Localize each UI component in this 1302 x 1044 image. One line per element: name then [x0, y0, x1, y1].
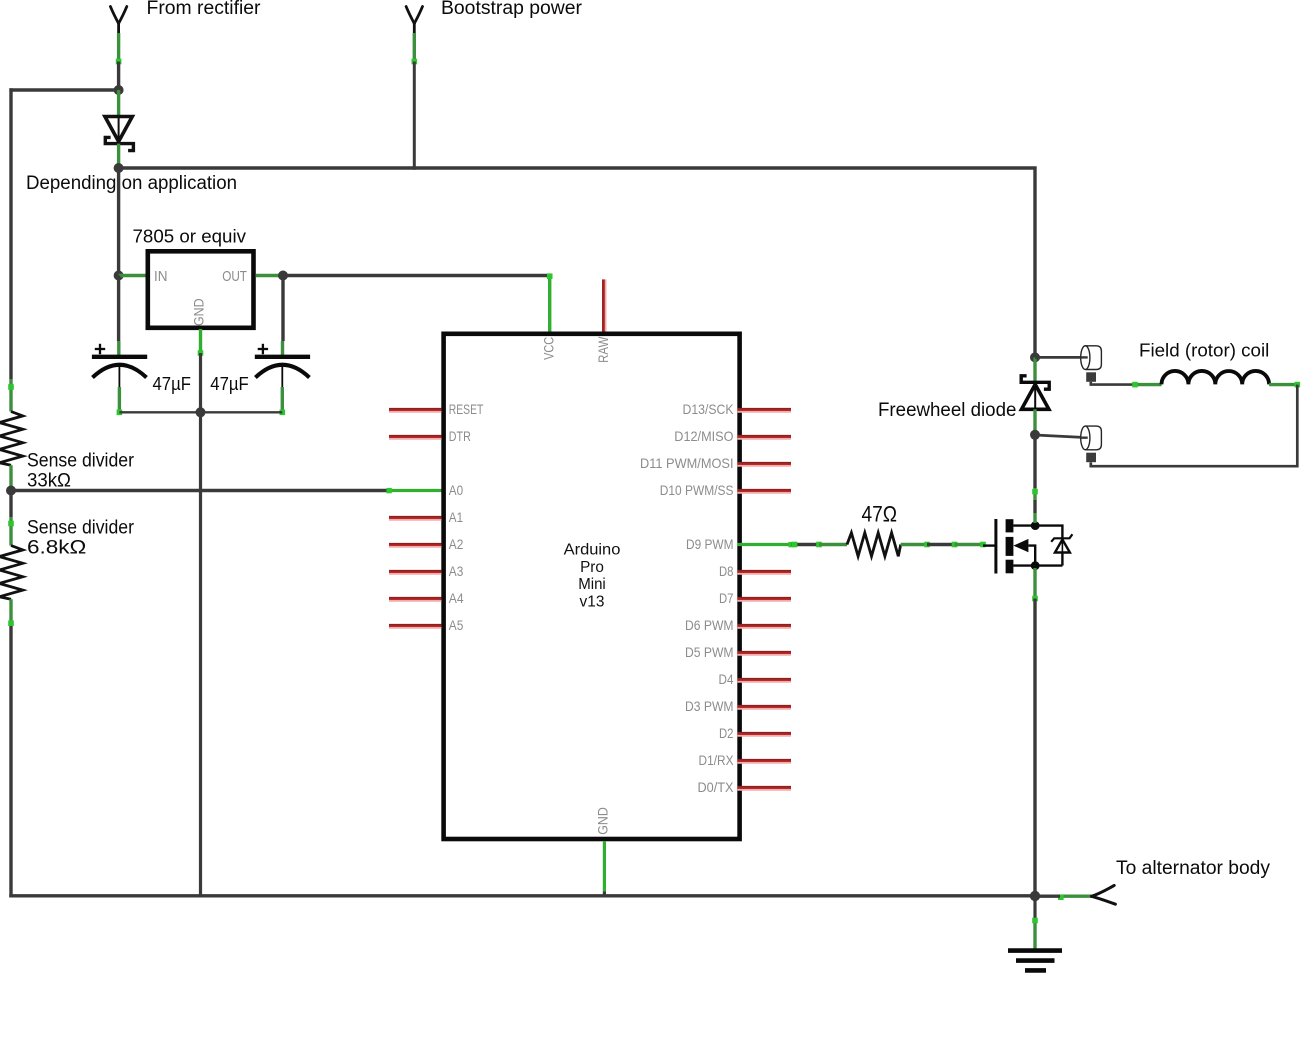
node C junction dot at IN [114, 271, 124, 281]
pin D11 PWM/MOSI red stub [738, 462, 792, 464]
pin DTR red stub [389, 435, 442, 437]
pin D8 red stub [738, 570, 792, 572]
wire coil right green [1269, 383, 1297, 386]
wire node D down to capacitor C2 [281, 276, 284, 342]
node H junction dot ground bus [1030, 891, 1040, 901]
wire ground stem green [1033, 921, 1036, 950]
wire green lead resistor R1 top [9, 379, 12, 412]
pin D4 red stub [738, 678, 792, 680]
svg-text:D6 PWM: D6 PWM [685, 617, 734, 633]
wire coil left green [1135, 383, 1162, 386]
wire green lead resistor R2 bottom [9, 599, 12, 626]
IC U1 Arduino Pro Mini box [444, 334, 740, 839]
fork symbol to alternator body [1092, 885, 1116, 904]
wire D9 pin stub green [738, 543, 792, 546]
wire left rail upper [9, 88, 12, 379]
capacitor C1 47uF [92, 344, 147, 387]
pin D6 PWM red stub [738, 624, 792, 626]
wire green lead resistor R1 bottom [9, 465, 12, 490]
wire coil return loop [1091, 385, 1298, 467]
connector J2 pad square [1086, 453, 1096, 463]
svg-text:Freewheel diode: Freewheel diode [878, 400, 1016, 421]
pin A4 red stub [389, 597, 442, 599]
svg-text:From rectifier: From rectifier [147, 0, 262, 19]
wire C1 bottom lead green [118, 387, 121, 412]
wire bootstrap vertical [413, 62, 416, 170]
svg-text:Bootstrap power: Bootstrap power [441, 0, 583, 19]
wire capacitor ground bus [119, 411, 282, 413]
svg-text:D0/TX: D0/TX [698, 779, 735, 795]
pin RAW red stub [602, 279, 605, 331]
svg-text:47Ω: 47Ω [862, 502, 898, 527]
wire node F to connector J1 [1035, 356, 1088, 359]
svg-text:v13: v13 [580, 593, 605, 610]
wire D9 net to resistor [788, 542, 793, 547]
svg-text:A0: A0 [449, 482, 463, 498]
wire VCC stub green [548, 274, 551, 332]
wire IN stub green [119, 274, 146, 277]
connector J1 pad square [1086, 372, 1096, 382]
connector J2 pin symbol [1081, 426, 1102, 450]
wire source to ground bus [1033, 599, 1036, 897]
svg-text:GND: GND [595, 807, 611, 835]
node A0 junction dot [6, 486, 16, 496]
svg-text:D12/MISO: D12/MISO [674, 428, 733, 444]
source node dot [1031, 561, 1040, 570]
svg-text:Mini: Mini [578, 576, 606, 593]
freewheel diode D2 [1021, 376, 1049, 410]
wire node A to zener green [117, 90, 120, 117]
svg-text:D11 PWM/MOSI: D11 PWM/MOSI [640, 455, 734, 471]
arrow into channel [1013, 539, 1028, 552]
gate lead [983, 544, 995, 546]
channel segments [1006, 519, 1014, 532]
svg-text:RESET: RESET [449, 401, 484, 417]
svg-text:To alternator body: To alternator body [1116, 858, 1271, 879]
connector J1 pin symbol [1081, 346, 1102, 370]
bendpoint marker [116, 59, 122, 65]
wire Arduino GND stub green [603, 841, 606, 892]
wire 7805 GND stub green [199, 329, 202, 353]
svg-text:A2: A2 [449, 536, 464, 552]
source wire [1013, 564, 1062, 566]
capacitor C2 47uF [255, 344, 310, 387]
svg-text:A4: A4 [449, 590, 464, 606]
svg-text:Field (rotor) coil: Field (rotor) coil [1139, 341, 1269, 361]
wire top horizontal bus [119, 168, 1035, 357]
wire resistor to gate [901, 543, 927, 546]
antenna ANT1 From rectifier [110, 7, 126, 34]
wire node A to left rail [9, 88, 118, 91]
wire A0 pin stub green [389, 489, 442, 492]
pin D0/TX red stub [738, 786, 792, 788]
svg-text:GND: GND [191, 298, 207, 326]
wire A0 net horizontal [11, 489, 389, 492]
regulator U2 7805 box [148, 251, 254, 327]
wire freewheel cathode green [1033, 357, 1036, 384]
pin D10 PWM/SS red stub [738, 489, 792, 491]
svg-text:D10 PWM/SS: D10 PWM/SS [660, 482, 734, 498]
pin D3 PWM red stub [738, 705, 792, 707]
drain node dot [1031, 521, 1040, 530]
wire source down green [1033, 568, 1036, 599]
wire node G to connector J2 [1035, 435, 1088, 438]
wire C2 bottom lead green [281, 387, 284, 412]
antenna ANT2 Bootstrap power [406, 7, 422, 34]
wire freewheel top node to drain [1033, 435, 1036, 488]
svg-text:IN: IN [154, 268, 168, 285]
wire between sense dividers [9, 491, 12, 518]
pin D7 red stub [738, 597, 792, 599]
node D junction dot at OUT [278, 271, 288, 281]
pin A1 red stub [389, 516, 442, 518]
node G junction dot freewheel anode [1030, 430, 1040, 440]
svg-text:6.8kΩ: 6.8kΩ [27, 538, 86, 559]
svg-text:D13/SCK: D13/SCK [683, 401, 735, 417]
svg-text:A3: A3 [449, 563, 464, 579]
wire ground stem [1033, 896, 1036, 921]
pin A2 red stub [389, 543, 442, 545]
pin D12/MISO red stub [738, 435, 792, 437]
svg-text:D7: D7 [719, 590, 734, 606]
wire green lead resistor R2 top [9, 517, 12, 546]
resistor R2 6.8k zigzag [0, 546, 23, 600]
wire to alternator fork green [1060, 895, 1092, 898]
wire antenna2 stub green [413, 33, 416, 62]
svg-text:D2: D2 [719, 725, 734, 741]
pin A3 red stub [389, 570, 442, 572]
wire left rail lower [9, 626, 12, 898]
pin D2 red stub [738, 732, 792, 734]
svg-text:D3 PWM: D3 PWM [685, 698, 734, 714]
svg-text:D4: D4 [719, 671, 734, 687]
svg-text:D8: D8 [719, 563, 734, 579]
gate bar [994, 519, 997, 574]
wire bottom ground bus [9, 894, 1035, 897]
drain wire [1013, 526, 1062, 539]
pin RESET red stub [389, 408, 442, 410]
node B junction dot [114, 163, 124, 173]
pin A5 red stub [389, 624, 442, 626]
wire antenna1 to node A [117, 62, 120, 91]
svg-text:Sense divider: Sense divider [27, 518, 135, 539]
svg-text:Arduino: Arduino [564, 542, 621, 559]
wire freewheel anode green [1033, 409, 1036, 435]
node A junction dot [114, 85, 124, 95]
pin D5 PWM red stub [738, 651, 792, 653]
resistor R1 33k zigzag [0, 412, 23, 466]
svg-text:A1: A1 [449, 509, 463, 525]
svg-text:D5 PWM: D5 PWM [685, 644, 734, 660]
svg-text:D1/RX: D1/RX [699, 752, 735, 768]
svg-text:33kΩ: 33kΩ [27, 471, 71, 492]
wire Arduino GND to bottom bus [603, 892, 606, 898]
wire node B down to IN [117, 168, 120, 276]
svg-text:VCC: VCC [541, 337, 557, 360]
wire node C down to capacitor C1 [117, 276, 120, 342]
wire OUT stub green [256, 274, 283, 277]
ground symbol [1008, 951, 1062, 971]
wire zener to node B green [117, 144, 120, 168]
pin D13/SCK red stub [738, 408, 792, 410]
svg-text:7805 or equiv: 7805 or equiv [133, 227, 247, 247]
node F junction dot freewheel cathode [1030, 352, 1040, 362]
wire GND vertical down [199, 353, 202, 897]
body diode D3 [1055, 540, 1070, 553]
svg-text:D9 PWM: D9 PWM [686, 536, 734, 552]
svg-text:RAW: RAW [595, 336, 611, 363]
wire OUT to VCC corner [283, 274, 550, 277]
wire antenna1 stub green [117, 33, 120, 62]
svg-text:OUT: OUT [222, 268, 247, 285]
svg-text:47µF: 47µF [153, 374, 191, 394]
svg-text:A5: A5 [449, 617, 464, 633]
zener diode D1 [105, 117, 133, 151]
svg-text:Pro: Pro [580, 559, 604, 576]
svg-text:DTR: DTR [449, 428, 471, 444]
node E junction dot [196, 407, 206, 417]
svg-text:47µF: 47µF [210, 374, 248, 394]
svg-text:Depending on application: Depending on application [26, 173, 237, 194]
pin D1/RX red stub [738, 759, 792, 761]
inductor L1 field coil [1162, 371, 1270, 384]
transistor Q1 MOSFET [983, 519, 1072, 574]
svg-text:Sense divider: Sense divider [27, 451, 135, 472]
resistor R3 47ohm zigzag [847, 533, 901, 557]
wire J1 pad to coil [1091, 382, 1135, 385]
